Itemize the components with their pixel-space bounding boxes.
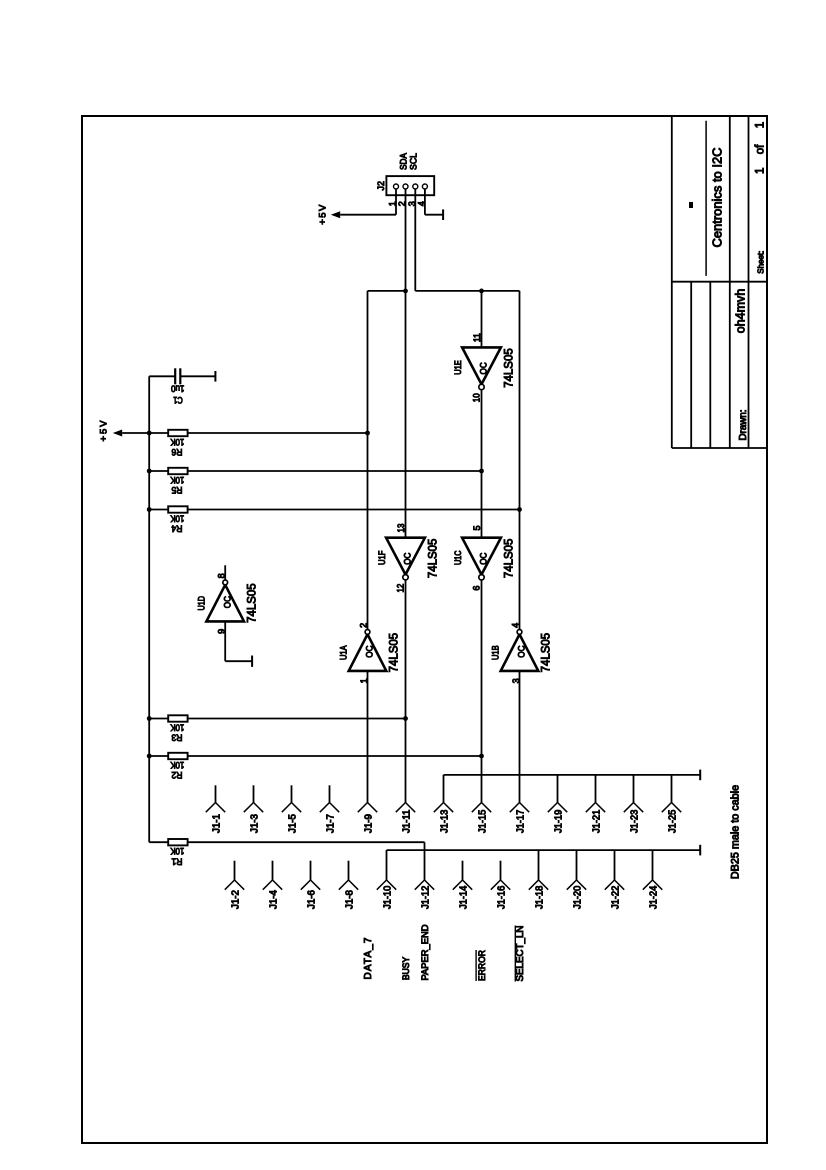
node R4/SCL junction [517,507,522,512]
svg-text:J1-1: J1-1 [211,814,222,833]
wire SDA branch left and down to U1A output [368,290,406,292]
svg-text:Drawn:: Drawn: [738,410,749,441]
svg-text:J1-17: J1-17 [515,810,526,833]
svg-text:74LS05: 74LS05 [539,633,553,673]
connector pin J1-1 [206,785,225,833]
connector pin J1-5 [282,785,301,833]
svg-text:J1-8: J1-8 [344,889,355,909]
svg-text:J1-20: J1-20 [572,885,583,909]
svg-text:J1-24: J1-24 [648,885,659,909]
svg-text:U1E: U1E [453,360,463,375]
svg-text:J1-9: J1-9 [363,814,374,833]
wire R3 row [149,718,405,720]
svg-text:13: 13 [396,524,406,533]
connector pin J1-12 [415,880,434,909]
svg-text:OC: OC [222,596,232,609]
wire odd-pins ground bus [444,774,701,776]
svg-text:10K: 10K [170,846,184,856]
svg-text:DATA_7: DATA_7 [363,937,374,979]
svg-text:J1-18: J1-18 [534,885,545,909]
resistor R3 10K [168,715,187,742]
svg-text:OC: OC [403,552,413,565]
resistor R5 10K [168,468,187,495]
drawing border frame [82,116,767,1143]
svg-text:R6: R6 [171,446,182,457]
connector pin J1-23 [624,803,643,834]
wire R6 row with +5V arrow [122,432,367,434]
wire even-pins ground bus [387,849,701,851]
wire odd bus drop x=671.5 [671,775,673,803]
title block outline [672,116,767,448]
connector pin J1-20 [567,880,586,909]
svg-text:J1-2: J1-2 [230,890,241,909]
svg-text:10: 10 [472,393,482,402]
svg-text:11: 11 [472,333,482,342]
svg-text:+5V: +5V [317,204,328,225]
sheet number 1 of 1 [755,122,767,174]
wire odd bus drop x=595.5 [595,775,597,803]
svg-text:of: of [755,144,767,154]
wire U1B input down to J1-17 [519,671,521,802]
inverter U1F 74LS05 open-collector, pointing down [377,524,440,593]
open wire end bar at U1D input [251,656,253,667]
wire J2 pin1 to +5V [395,189,397,215]
svg-text:U1A: U1A [339,645,349,660]
svg-text:J1-16: J1-16 [496,885,507,909]
node SDA junction [403,289,408,294]
node R5/U1E junction [479,469,484,474]
wire odd bus drop x=557.5 [557,775,559,803]
connector pin J1-17 [510,803,529,834]
open wire end bar at C1 [214,371,216,382]
svg-text:+5V: +5V [99,420,110,442]
svg-text:OC: OC [479,552,489,565]
node bus junction y=433 [147,431,152,436]
svg-text:BUSY: BUSY [401,957,411,980]
svg-text:OC: OC [517,645,527,658]
wire J2 pin4 to open stub [424,189,426,215]
open wire end bar odd bus [699,770,701,781]
connector pin J1-24 [643,880,662,909]
wire even bus drop x=538.5 [538,850,540,880]
wire U1E input from SCL wire [481,291,483,348]
svg-text:J1-11: J1-11 [401,810,412,833]
wire even bus drop x=652.5 [652,850,654,880]
inverter U1C 74LS05 open-collector, pointing down [453,525,516,590]
wire odd bus drop x=633.5 [633,775,635,803]
svg-text:R4: R4 [171,523,182,534]
svg-text:DB25 male to cable: DB25 male to cable [730,785,742,879]
wire R4 row [149,509,519,511]
svg-text:U1D: U1D [196,596,206,611]
svg-text:R2: R2 [171,769,182,780]
+5V arrow at J2 [331,211,340,218]
svg-text:SDA: SDA [399,152,409,170]
svg-text:74LS05: 74LS05 [244,583,258,623]
resistor R2 10K [168,753,187,780]
svg-text:J1-4: J1-4 [268,889,279,909]
wire J2 pin3 SCL down, right, down to U1B output [414,189,416,291]
inverter U1B 74LS05 open-collector, pointing up [491,623,553,684]
svg-text:74LS05: 74LS05 [501,348,515,388]
node R2/U1C junction [479,754,484,759]
svg-text:oh4mvh: oh4mvh [734,289,748,334]
svg-text:J1-25: J1-25 [667,809,678,833]
wire even bus drop x=576.5 [576,850,578,880]
node bus junction y=718.5 [147,716,152,721]
title dash mark [689,202,693,208]
wire R2 row [149,755,481,757]
svg-text:R5: R5 [171,484,182,495]
inverter U1D 74LS05 open-collector, pointing up [196,573,258,634]
connector pin J1-22 [605,880,624,909]
connector pin J1-18 [529,880,548,909]
connector pin J1-6 [301,861,320,909]
resistor R6 10K [168,430,187,457]
wire R5 row [149,470,481,472]
svg-text:2: 2 [359,623,369,628]
wire U1D output stub [224,565,226,580]
connector pin J1-14 [453,861,472,909]
wire J2 pin2 SDA rail down to U1F input [405,189,407,538]
svg-text:J1-15: J1-15 [477,809,488,833]
svg-text:J1-12: J1-12 [420,886,431,909]
resistor R4 10K [168,506,187,533]
svg-text:J1-19: J1-19 [553,810,564,833]
svg-text:OC: OC [365,645,375,658]
connector pin J1-11 [396,803,415,834]
node bus junction y=756 [147,754,152,759]
svg-text:10K: 10K [170,723,184,733]
connector pin J1-21 [586,803,605,834]
svg-text:1: 1 [755,122,767,128]
svg-text:6: 6 [472,586,482,591]
inverter U1A 74LS05 open-collector, pointing up [339,623,401,684]
svg-text:U1B: U1B [491,645,501,660]
svg-text:R3: R3 [171,732,182,743]
inverter U1E 74LS05 open-collector, pointing down [453,333,516,402]
svg-text:12: 12 [396,584,406,593]
svg-text:SCL: SCL [408,153,418,170]
svg-text:J1-21: J1-21 [591,810,602,833]
svg-text:1: 1 [755,168,767,174]
wire U1C output down to J1-15 [481,580,483,803]
node bus junction y=509.5 [147,507,152,512]
svg-text:R1: R1 [171,855,182,866]
node bus junction y=471 [147,469,152,474]
svg-text:10K: 10K [170,475,184,485]
connector pin J1-9 [358,803,377,834]
svg-text:J1-23: J1-23 [629,809,640,833]
svg-text:U1F: U1F [377,550,387,565]
wire U1D input to open stub [224,621,226,661]
connector pin J1-7 [320,785,339,833]
wire even bus drop x=614.5 [614,850,616,880]
svg-text:1u0: 1u0 [171,384,184,394]
connector pin J1-10 [377,880,396,909]
net label SELECT_LN (active low) [515,926,526,982]
+5V arrow at R6 [113,430,122,437]
svg-text:C1: C1 [173,394,183,405]
connector pin J1-2 [225,861,244,909]
connector pin J1-13 [434,803,453,834]
svg-text:PAPER_END: PAPER_END [419,924,430,980]
svg-text:J1-7: J1-7 [325,814,336,833]
capacitor C1 1u0 [149,368,215,405]
svg-text:4: 4 [511,623,521,628]
svg-text:Sheet:: Sheet: [756,251,766,274]
svg-text:Centronics to I2C: Centronics to I2C [710,148,725,248]
wire U1A input down to J1-9 [367,671,369,802]
svg-text:J1-6: J1-6 [306,889,317,909]
svg-text:J1-3: J1-3 [249,813,260,833]
svg-text:10K: 10K [170,514,184,524]
title rule line [705,121,707,276]
wire U1F output down to J1-11 [405,580,407,803]
open wire end bar at J2 pin4 [442,209,444,220]
svg-text:U1C: U1C [453,550,463,565]
svg-text:J1-14: J1-14 [458,885,469,909]
net label ERROR (active low) [476,950,487,981]
node R3/U1F junction [403,716,408,721]
connector pin J1-4 [263,861,282,909]
svg-text:J1-13: J1-13 [439,809,450,833]
connector pin J1-16 [491,861,510,909]
wire +5V pull-up bus vertical and R1 run to J1-12 [148,376,150,842]
svg-text:J1-10: J1-10 [382,885,393,909]
connector pin J1-15 [472,803,491,834]
svg-text:74LS05: 74LS05 [425,538,439,578]
svg-text:74LS05: 74LS05 [501,538,515,578]
node R6/SDA junction [365,431,370,436]
connector pin J1-8 [339,861,358,909]
wire U1E output down to U1C input [481,390,483,537]
svg-text:J1-22: J1-22 [610,886,621,909]
svg-text:OC: OC [479,362,489,375]
connector pin J1-19 [548,803,567,834]
svg-text:J2: J2 [376,181,387,191]
resistor R1 10K [168,839,187,866]
connector pin J1-25 [662,803,681,834]
svg-text:SELECT_LN: SELECT_LN [515,926,526,982]
connector J2 [376,176,434,195]
svg-text:ERROR: ERROR [477,950,487,981]
node U1E input junction [479,289,484,294]
svg-text:74LS05: 74LS05 [387,633,401,673]
connector pin J1-3 [244,785,263,833]
svg-text:J1-5: J1-5 [287,813,298,833]
svg-text:10K: 10K [170,437,184,447]
svg-text:10K: 10K [170,760,184,770]
open wire end bar even bus [699,845,701,856]
